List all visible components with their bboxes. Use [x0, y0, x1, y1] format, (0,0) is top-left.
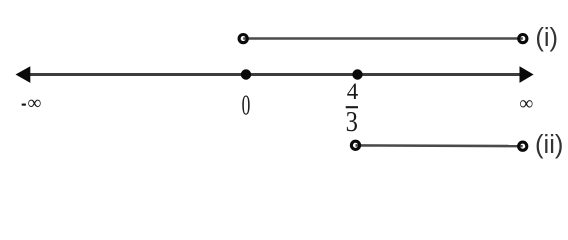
svg-text:4: 4 — [347, 79, 359, 104]
open circle: right endpoint of (i) at infinity — [519, 35, 527, 43]
filled dot: node 0 on axis — [241, 69, 251, 79]
svg-text:(i): (i) — [535, 24, 558, 52]
wire: main number line axis — [22, 73, 527, 76]
wire: interval segment (ii) from 4/3 to +inf — [356, 144, 523, 147]
svg-text:(ii): (ii) — [535, 131, 563, 159]
arrowhead: left toward -infinity — [16, 66, 31, 83]
open circle: right endpoint of (ii) at infinity — [519, 142, 527, 150]
open circle: left endpoint of (i) at 0 — [239, 35, 247, 43]
svg-text:∞: ∞ — [27, 93, 41, 114]
svg-text:0: 0 — [242, 90, 251, 121]
filled dot: node 4/3 on axis — [352, 69, 362, 79]
fraction bar of 4/3 — [346, 106, 358, 108]
wire: interval segment (i) from 0 to +inf — [243, 37, 523, 40]
label -infinity: minus stroke — [22, 104, 26, 106]
svg-text:∞: ∞ — [519, 93, 533, 114]
arrowhead: right toward +infinity — [520, 66, 534, 83]
open circle: left endpoint of (ii) at 4/3 — [351, 141, 359, 149]
svg-text:3: 3 — [346, 107, 358, 138]
